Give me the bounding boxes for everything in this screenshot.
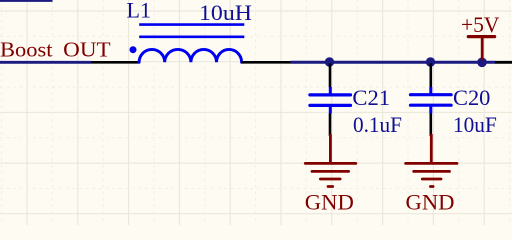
svg-text:10uH: 10uH: [199, 0, 252, 25]
junction at C21 tap: [325, 57, 334, 66]
svg-text:C21: C21: [352, 85, 390, 110]
svg-text:10uF: 10uF: [453, 112, 497, 137]
capacitor C20 top lead stub: [429, 87, 432, 95]
power symbol +5V stem: [481, 37, 484, 60]
svg-text:GND: GND: [305, 189, 354, 214]
ground GND1 bar 4: [328, 185, 333, 188]
pin 2 of L1: [242, 61, 291, 64]
ground GND2 bar 2: [414, 170, 450, 173]
pin 1 of L1: [91, 61, 140, 64]
ground GND1 bar 2: [312, 170, 349, 173]
power symbol +5V bar: [468, 35, 494, 38]
capacitor C20 bottom lead stub: [429, 105, 432, 113]
ground GND2 stem: [430, 134, 433, 163]
inductor L1 coil: [139, 49, 242, 62]
ground GND2 bar 1: [406, 162, 457, 165]
pin 2 of C20: [429, 114, 432, 137]
svg-text:L1: L1: [127, 0, 152, 22]
svg-text:GND: GND: [406, 189, 455, 214]
wire net Boost OUT: [0, 61, 91, 64]
pin 1 of C21: [329, 64, 332, 88]
capacitor C21 bottom lead stub: [329, 105, 332, 113]
wire main +5V net: [291, 61, 496, 64]
wire (off-sheet, top-left): [0, 0, 53, 2]
capacitor C21 top lead stub: [329, 87, 332, 95]
inductor L1 polarity dot: [130, 46, 137, 53]
svg-text:Boost: Boost: [0, 37, 53, 61]
svg-text:0.1uF: 0.1uF: [353, 112, 402, 137]
svg-text:OUT: OUT: [63, 37, 110, 61]
pin 2 of C21: [329, 114, 332, 137]
inductor L1 core bar 2: [139, 35, 244, 38]
ground GND1 bar 1: [305, 162, 356, 165]
capacitor C21 plate 1: [310, 93, 351, 96]
ground GND2 bar 4: [430, 185, 433, 188]
svg-text:+5V: +5V: [461, 12, 500, 37]
capacitor C21 plate 2: [310, 104, 351, 107]
ground GND2 bar 3: [422, 178, 441, 181]
ground GND1 stem: [329, 134, 332, 163]
pin 1 of C20: [429, 64, 432, 88]
net label Boost OUT: [0, 37, 111, 61]
inductor L1 core bar 1: [139, 23, 244, 26]
ground GND1 bar 3: [320, 178, 340, 181]
junction at C20 tap: [426, 57, 435, 66]
capacitor C20 plate 2: [411, 104, 452, 107]
capacitor C20 plate 1: [411, 93, 452, 96]
junction at +5V tap: [477, 58, 487, 68]
wire stub right edge: [495, 61, 512, 64]
svg-text:C20: C20: [453, 85, 490, 110]
